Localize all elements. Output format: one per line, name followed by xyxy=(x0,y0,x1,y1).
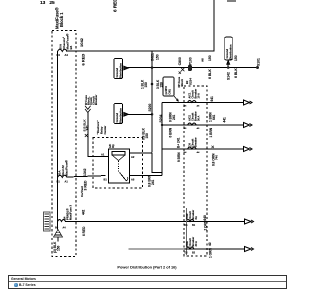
svg-text:241: 241 xyxy=(151,179,155,185)
svg-text:10 A: 10 A xyxy=(197,93,201,99)
svg-text:150: 150 xyxy=(145,133,149,139)
fuse F3 maxifuse xyxy=(58,220,66,222)
svg-text:6 RED: 6 RED xyxy=(81,54,86,66)
svg-text:740: 740 xyxy=(215,155,219,160)
wire2 box2 to splice S200 xyxy=(128,113,153,115)
svg-text:B1: B1 xyxy=(104,178,108,182)
splice S101 end dot xyxy=(256,66,259,69)
rung2 xyxy=(162,124,244,126)
svg-text:Ca’Rwd: Ca’Rwd xyxy=(80,186,84,197)
svg-text:S234: S234 xyxy=(189,78,193,85)
wire TOW line y221.5 xyxy=(65,221,244,223)
wire x152 jog to rail xyxy=(152,153,162,173)
x mark rung3 xyxy=(212,146,214,148)
svg-text:6 BLK: 6 BLK xyxy=(208,69,212,79)
svg-text:40: 40 xyxy=(208,242,212,246)
svg-text:150: 150 xyxy=(160,82,164,88)
svg-text:B2: B2 xyxy=(192,252,196,255)
svg-text:8A: 8A xyxy=(194,216,198,219)
svg-text:3 RED: 3 RED xyxy=(84,180,88,191)
svg-text:B1: B1 xyxy=(57,180,61,184)
svg-text:S204: S204 xyxy=(159,114,163,122)
off page arrows right xyxy=(244,100,253,105)
svg-text:S142: S142 xyxy=(227,72,231,80)
svg-text:150: 150 xyxy=(208,55,212,61)
wire PRE line y247 xyxy=(129,248,185,250)
svg-text:Ground: Ground xyxy=(115,67,119,77)
IP fuse block dashed box xyxy=(184,86,207,256)
svg-text:Distribution: Distribution xyxy=(229,44,233,59)
svg-text:30 A: 30 A xyxy=(197,115,201,121)
wire1 y67.5 xyxy=(128,67,258,69)
svg-text:B4: B4 xyxy=(184,151,188,154)
wire main bus y51 xyxy=(66,0,214,51)
svg-text:341: 341 xyxy=(86,125,90,131)
svg-text:B4: B4 xyxy=(55,227,59,230)
svg-text:S021: S021 xyxy=(151,53,155,61)
svg-text:13 25: 13 25 xyxy=(40,0,55,6)
svg-text:0 BRN: 0 BRN xyxy=(169,127,173,137)
svg-text:1342: 1342 xyxy=(83,168,87,176)
svg-text:MaxiFuse®: MaxiFuse® xyxy=(65,159,69,176)
svg-text:Block: Block xyxy=(180,78,184,86)
svg-text:150: 150 xyxy=(156,54,160,60)
svg-text:150: 150 xyxy=(234,55,238,61)
svg-text:B4: B4 xyxy=(57,53,61,57)
breaker bumps on rungs xyxy=(188,101,197,103)
svg-text:A5: A5 xyxy=(131,178,135,182)
wire internal fuse bus xyxy=(57,51,59,230)
note box AC only xyxy=(163,77,174,96)
relay coil xyxy=(112,152,125,156)
splice link S021 xyxy=(151,51,153,68)
relay pins wires xyxy=(106,156,109,158)
svg-text:B+ 241: B+ 241 xyxy=(177,137,181,148)
relay box xyxy=(109,149,130,183)
svg-text:Distribution: Distribution xyxy=(119,63,123,78)
svg-text:S200: S200 xyxy=(148,103,152,111)
svg-text:1042: 1042 xyxy=(79,37,84,47)
fuse F1 chassis maxifuse xyxy=(58,49,68,51)
ground splice triangle xyxy=(54,230,63,238)
svg-text:Ground: Ground xyxy=(115,112,119,122)
svg-text:441: 441 xyxy=(223,117,227,123)
ground distribution box1 xyxy=(114,59,123,79)
svg-text:A4: A4 xyxy=(197,151,201,154)
svg-text:Rly: Rly xyxy=(112,144,115,148)
X mark crossing 1 xyxy=(181,68,184,71)
svg-text:A2: A2 xyxy=(131,155,135,159)
svg-text:442: 442 xyxy=(82,209,86,215)
fuse F2 stud maxifuse xyxy=(58,175,68,177)
ground distribution box3 xyxy=(225,37,233,60)
off page label chain to relay : double V connector xyxy=(85,106,91,113)
svg-text:Center: Center xyxy=(103,125,107,135)
relay dashed box flashers relay center xyxy=(93,138,143,189)
svg-text:B4: B4 xyxy=(69,45,73,49)
svg-text:1 ORN: 1 ORN xyxy=(209,248,213,258)
svg-text:Breaker: Breaker xyxy=(94,94,98,105)
svg-text:A1: A1 xyxy=(65,180,69,184)
svg-text:MaxiFuse 3: MaxiFuse 3 xyxy=(69,204,73,220)
ground distribution box2 xyxy=(114,104,123,124)
wire x152 down xyxy=(151,68,153,153)
note box small table xyxy=(44,212,51,231)
svg-text:S101: S101 xyxy=(257,58,261,66)
maxifuse block 1 dashed box xyxy=(52,31,76,257)
bottom ui bar xyxy=(8,275,287,289)
X mark small below wire1 xyxy=(179,72,181,74)
X mark on drop xyxy=(85,134,88,137)
svg-text:C60): C60) xyxy=(169,89,172,94)
svg-text:1 BRN: 1 BRN xyxy=(209,127,213,137)
svg-text:Breaker: Breaker xyxy=(194,137,198,147)
wire drop x88.5 xyxy=(88,113,106,157)
svg-text:D2: D2 xyxy=(185,252,189,255)
svg-text:A4: A4 xyxy=(65,53,69,57)
arrow into box1 xyxy=(124,66,129,70)
svg-text:9 BRN: 9 BRN xyxy=(177,152,181,162)
relay switch xyxy=(118,161,120,173)
svg-text:Distribution: Distribution xyxy=(119,108,123,123)
svg-text:B5: B5 xyxy=(184,128,188,130)
svg-text:Ground: Ground xyxy=(225,48,229,58)
svg-text:6 BLK: 6 BLK xyxy=(234,68,238,78)
junction dot x152 y84 xyxy=(151,83,154,86)
svg-text:640: 640 xyxy=(203,215,207,221)
ladder rail xyxy=(161,103,163,176)
rung1 xyxy=(162,102,244,104)
globe icon xyxy=(14,283,18,287)
svg-text:Block 1: Block 1 xyxy=(59,12,64,27)
svg-text:B6: B6 xyxy=(184,106,188,108)
svg-text:150: 150 xyxy=(57,245,61,251)
connector blob P100 xyxy=(188,65,192,71)
svg-text:30 A: 30 A xyxy=(194,241,198,247)
svg-text:Power Distribution (Part 2 of: Power Distribution (Part 2 of 16) xyxy=(117,265,177,270)
svg-text:6 RED: 6 RED xyxy=(82,226,86,236)
svg-text:B1: B1 xyxy=(192,224,196,227)
svg-text:641: 641 xyxy=(212,114,216,120)
svg-text:A1: A1 xyxy=(101,153,105,157)
ip fuse block internal bus xyxy=(186,208,188,255)
svg-text:P100: P100 xyxy=(188,57,192,65)
svg-text:2 ORN: 2 ORN xyxy=(204,220,208,230)
svg-text:B2: B2 xyxy=(185,80,189,84)
svg-text:241: 241 xyxy=(172,114,176,120)
svg-text:A6: A6 xyxy=(197,105,201,108)
svg-text:C800: C800 xyxy=(178,57,182,65)
svg-text:641: 641 xyxy=(210,96,214,102)
svg-text:D1: D1 xyxy=(185,224,189,227)
svg-text:A5: A5 xyxy=(197,127,201,130)
rung3 xyxy=(162,148,244,150)
splice S200 dot xyxy=(151,113,154,116)
arrow into box2 xyxy=(124,113,129,117)
svg-text:6 RED: 6 RED xyxy=(113,0,118,12)
top edge fragment xyxy=(227,0,236,2)
svg-text:A4: A4 xyxy=(63,227,67,230)
svg-text:A6: A6 xyxy=(201,58,205,62)
arrow into box3 xyxy=(227,61,230,65)
svg-text:150: 150 xyxy=(144,82,148,88)
